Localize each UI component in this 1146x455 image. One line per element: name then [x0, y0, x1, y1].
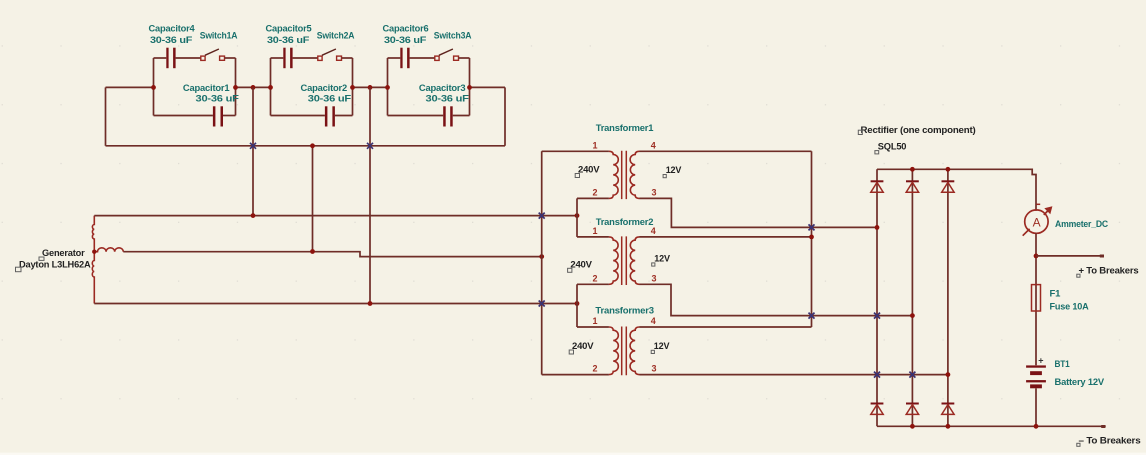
junction loop2 right: [350, 85, 355, 90]
svg-text:Switch3A: Switch3A: [434, 30, 472, 41]
diode D2 top (rectifier SQL50): [906, 181, 919, 192]
crossing primary chain over top phase: [539, 213, 545, 219]
svg-text:– To Breakers: – To Breakers: [1079, 436, 1141, 447]
wire loop2 top to capacitor: [271, 57, 284, 59]
wire loop1 bottom left to capacitor: [154, 115, 213, 117]
crossing leg2 over T3 pin3 wire: [909, 372, 915, 378]
wire rectifier positive bus to ammeter: [877, 169, 1036, 211]
open end nub negative breaker: [1101, 425, 1105, 428]
wire bottom bus of capacitor bank: [106, 145, 506, 147]
wire loop2 left side: [270, 58, 272, 116]
svg-text:Generator: Generator: [42, 248, 85, 259]
svg-text:4: 4: [651, 316, 656, 326]
transformer Transformer2 secondary winding: [630, 237, 639, 284]
junction battery on negative bus: [1034, 424, 1039, 429]
wire ammeter to battery through fuse: [1035, 233, 1037, 365]
wire T2 pin3 to rectifier leg2: [640, 284, 913, 315]
svg-text:Capacitor4: Capacitor4: [149, 24, 196, 35]
transformer Transformer2 primary winding: [609, 237, 618, 284]
junction loop3 right: [467, 85, 472, 90]
junction leg3 AC input: [946, 372, 951, 377]
wire T2 pin2: [577, 283, 609, 285]
wire generator top phase: [94, 215, 577, 217]
wire Switch3A to loop3 right: [459, 57, 470, 59]
svg-text:30-36 uF: 30-36 uF: [426, 94, 470, 105]
svg-text:A: A: [1033, 216, 1041, 230]
anchor square 240V Transformer3: [569, 350, 573, 354]
wire T3 pin4 to chain: [640, 326, 812, 328]
wire T3 pin2: [542, 374, 609, 376]
wire rectifier negative bus: [877, 425, 1106, 427]
svg-text:2: 2: [593, 188, 598, 198]
junction generator tap: [92, 250, 96, 254]
junction leg3 positive bus: [946, 167, 951, 172]
wire secondary pin4 chain vertical: [811, 151, 813, 327]
svg-text:SQL50: SQL50: [878, 142, 907, 153]
wire midline segment C2 loop to C3 loop: [353, 86, 388, 88]
svg-text:+: +: [1038, 356, 1043, 366]
junction loop3 left: [385, 85, 390, 90]
svg-text:+ To Breakers: + To Breakers: [1079, 266, 1139, 277]
wire rectifier leg3: [947, 169, 949, 426]
transformer Transformer3 core: [622, 327, 627, 376]
ammeter Ammeter_DC: [1023, 204, 1053, 235]
transformer Transformer1 secondary winding: [630, 151, 639, 198]
wire T2 pin2 to T3 pin1 vertical: [576, 284, 578, 327]
wire loop3 right side: [469, 58, 471, 116]
junction drop A on top phase: [251, 213, 256, 218]
crossing primary chain over bottom phase: [539, 301, 545, 307]
crossing drop C over bus: [367, 143, 373, 149]
anchor square 12V Transformer3: [651, 350, 654, 353]
svg-text:12V: 12V: [654, 253, 670, 264]
junction leg2 positive bus: [910, 167, 915, 172]
anchor square - To Breakers: [1077, 443, 1080, 446]
svg-text:240V: 240V: [570, 259, 592, 270]
svg-text:30-36 uF: 30-36 uF: [267, 35, 310, 46]
wire to positive breaker terminal: [1036, 255, 1103, 257]
wire capacitor to loop2 bottom right: [335, 115, 353, 117]
transformer Transformer3 secondary winding: [630, 327, 639, 375]
wire T2 pin1: [577, 236, 609, 238]
svg-text:3: 3: [652, 364, 657, 374]
wire drop B bus to generator tap net: [312, 146, 314, 252]
wire T1 pin3 to rectifier leg1: [640, 198, 878, 227]
wire midline segment left-outer to C1 loop: [106, 86, 154, 88]
wire midline segment C3 loop to right-outer: [470, 86, 506, 88]
junction drop B on bus: [310, 143, 315, 148]
wire loop1 right side: [235, 58, 237, 116]
wire loop3 left side: [387, 58, 389, 116]
wire Switch1A to loop1 right: [225, 57, 236, 59]
junction drop C on bottom phase: [368, 301, 373, 306]
svg-text:3: 3: [652, 188, 657, 198]
battery BT1: [1026, 365, 1046, 388]
wire generator bottom phase: [94, 303, 577, 305]
svg-text:Capacitor1: Capacitor1: [183, 83, 230, 94]
wire drop A to generator top net: [252, 87, 254, 215]
anchor square 240V Transformer2: [568, 268, 572, 272]
wire left outer drop: [105, 87, 107, 145]
svg-text:F1: F1: [1050, 288, 1062, 299]
junction top phase to T1 pin2 net: [575, 213, 580, 218]
junction pin4 chain at T2 pin4: [809, 235, 814, 240]
diode D5 bottom (rectifier SQL50): [906, 404, 919, 415]
junction tap phase to primary chain: [539, 254, 544, 259]
wire T3 pin3 to rectifier leg3: [640, 374, 948, 376]
switch Switch2A: [318, 49, 342, 60]
svg-text:Transformer1: Transformer1: [596, 123, 654, 134]
svg-text:30-36 uF: 30-36 uF: [196, 94, 240, 105]
wire Capacitor4 to Switch1A: [176, 57, 201, 59]
svg-text:Capacitor5: Capacitor5: [266, 24, 313, 35]
anchor square 240V Transformer1: [575, 174, 579, 178]
junction positive output: [1034, 254, 1039, 259]
diode D4 bottom (rectifier SQL50): [871, 404, 884, 415]
svg-text:Capacitor6: Capacitor6: [383, 24, 429, 35]
svg-text:4: 4: [651, 141, 656, 151]
capacitor Capacitor4 30-36 uF: [166, 48, 175, 68]
diode D6 bottom (rectifier SQL50): [942, 404, 955, 415]
transformer Transformer2 core: [622, 236, 627, 285]
anchor square + To Breakers: [1077, 274, 1080, 277]
switch Switch1A: [201, 49, 225, 60]
svg-text:Ammeter_DC: Ammeter_DC: [1055, 219, 1108, 230]
anchor square Generator: [39, 257, 44, 260]
wire primary chain vertical T1 pin1 to T3 pin2: [541, 151, 543, 374]
wire generator tap phase with step: [123, 252, 541, 257]
junction drop A top: [251, 85, 256, 90]
wire battery to negative bus: [1035, 388, 1037, 426]
wire right outer drop: [504, 87, 506, 145]
wire T2 pin4 to chain: [640, 236, 812, 238]
junction leg1 AC input: [875, 225, 880, 230]
transformer Transformer3 primary winding: [609, 327, 618, 375]
open end nub positive breaker: [1100, 255, 1104, 258]
svg-text:12V: 12V: [666, 165, 682, 176]
wire loop1 left side: [153, 58, 155, 116]
wire loop3 top to capacitor: [388, 57, 401, 59]
svg-text:12V: 12V: [654, 341, 670, 352]
wire drop C to generator bottom net: [369, 87, 371, 303]
junction loop1 left: [151, 85, 156, 90]
svg-text:Fuse 10A: Fuse 10A: [1050, 301, 1089, 312]
junction drop C top: [368, 85, 373, 90]
anchor square Dayton: [16, 267, 22, 272]
diode D3 top (rectifier SQL50): [942, 181, 955, 192]
svg-text:2: 2: [593, 364, 598, 374]
svg-text:Capacitor2: Capacitor2: [301, 83, 348, 94]
wire loop2 right side: [352, 58, 354, 116]
svg-text:Battery 12V: Battery 12V: [1055, 377, 1105, 388]
svg-text:3: 3: [652, 273, 657, 283]
capacitor Capacitor5 30-36 uF: [283, 48, 292, 68]
wire Switch2A to loop2 right: [342, 57, 353, 59]
svg-text:2: 2: [593, 273, 598, 283]
svg-text:Switch2A: Switch2A: [317, 30, 355, 41]
svg-text:Rectifier (one component): Rectifier (one component): [861, 125, 976, 136]
anchor square Rectifier: [858, 130, 862, 134]
wire T1 pin2: [577, 197, 609, 199]
crossing pin4 chain over T2 pin3 wire: [809, 313, 815, 319]
junction drop B on tap phase: [310, 249, 315, 254]
svg-text:1: 1: [593, 141, 598, 151]
generator tap winding: [94, 248, 123, 252]
junction leg2 negative bus: [910, 424, 915, 429]
wire capacitor to loop1 bottom right: [223, 115, 236, 117]
wire loop1 top to capacitor: [154, 57, 167, 59]
svg-text:Switch1A: Switch1A: [200, 30, 238, 41]
svg-text:BT1: BT1: [1055, 359, 1071, 370]
svg-text:Transformer3: Transformer3: [595, 305, 654, 316]
wire Capacitor6 to Switch3A: [410, 57, 435, 59]
wire rectifier leg2: [911, 169, 913, 426]
junction loop1 right: [233, 85, 238, 90]
svg-text:Transformer2: Transformer2: [596, 217, 654, 228]
wire Capacitor5 to Switch2A: [293, 57, 318, 59]
capacitor Capacitor6 30-36 uF: [400, 48, 409, 68]
crossing leg1 over T2 pin3 wire: [874, 313, 880, 319]
capacitor Capacitor2 30-36 uF: [325, 106, 335, 126]
svg-text:30-36 uF: 30-36 uF: [308, 94, 352, 105]
diode D1 top (rectifier SQL50): [871, 181, 884, 192]
switch Switch3A: [435, 49, 459, 60]
svg-text:240V: 240V: [572, 341, 594, 352]
junction loop2 left: [268, 85, 273, 90]
wire T1 pin1: [542, 150, 609, 152]
svg-text:30-36 uF: 30-36 uF: [384, 35, 427, 46]
svg-text:Dayton L3LH62A: Dayton L3LH62A: [19, 259, 91, 270]
capacitor Capacitor3 30-36 uF: [443, 106, 453, 126]
wire T1 pin4 to chain: [640, 150, 812, 152]
wire midline segment C1 loop to C2 loop: [236, 86, 271, 88]
svg-text:1: 1: [593, 316, 598, 326]
anchor square 12V Transformer2: [652, 263, 655, 266]
crossing leg1 over T3 pin3 wire: [874, 372, 880, 378]
svg-text:30-36 uF: 30-36 uF: [150, 35, 193, 46]
wire capacitor to loop3 bottom right: [453, 115, 470, 117]
anchor square 12V Transformer1: [663, 175, 666, 178]
junction leg2 AC input: [910, 313, 915, 318]
crossing pin4 chain over T1 pin3 wire: [809, 224, 815, 230]
fuse F1: [1032, 285, 1041, 311]
transformer Transformer1 primary winding: [609, 151, 618, 198]
transformer Transformer1 core: [622, 151, 627, 199]
crossing drop A over bus: [250, 143, 256, 149]
wire loop2 bottom left to capacitor: [271, 115, 325, 117]
wire loop3 bottom left to capacitor: [388, 115, 444, 117]
junction leg3 negative bus: [946, 424, 951, 429]
anchor square SQL50: [875, 151, 879, 154]
wire T3 pin1: [577, 326, 609, 328]
wire rectifier leg1: [876, 169, 878, 426]
capacitor Capacitor1 30-36 uF: [213, 106, 223, 126]
svg-text:Capacitor3: Capacitor3: [419, 83, 466, 94]
svg-text:240V: 240V: [578, 165, 600, 176]
junction bottom phase to T2 pin2 net: [575, 301, 580, 306]
wire T1 pin2 to T2 pin1 vertical: [576, 198, 578, 237]
generator Dayton L3LH62A winding: [92, 216, 94, 304]
